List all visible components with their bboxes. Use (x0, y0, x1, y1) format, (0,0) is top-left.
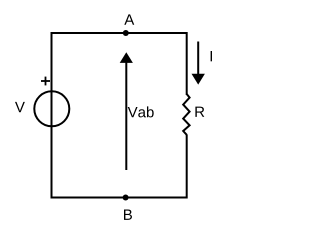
node A (junction dot) (123, 30, 129, 36)
wire bottom (51, 197, 188, 199)
label I (211, 51, 212, 61)
arrow I (shaft) (192, 42, 205, 85)
arrow Vab (shaft) (120, 52, 133, 170)
node B (junction dot) (123, 195, 129, 201)
wire right upper (corner to resistor) (186, 32, 188, 95)
label Vab (128, 106, 154, 117)
voltage source V (circle) (34, 91, 69, 126)
resistor R (zigzag) (183, 94, 189, 135)
label V (15, 102, 25, 112)
label R (195, 107, 204, 117)
wire left (through source) (51, 32, 53, 199)
wire top (A to corners) (51, 32, 188, 34)
label B (124, 210, 132, 220)
label A (124, 14, 134, 24)
polarity + of source (41, 77, 50, 86)
wire right lower (resistor to corner) (186, 135, 188, 199)
